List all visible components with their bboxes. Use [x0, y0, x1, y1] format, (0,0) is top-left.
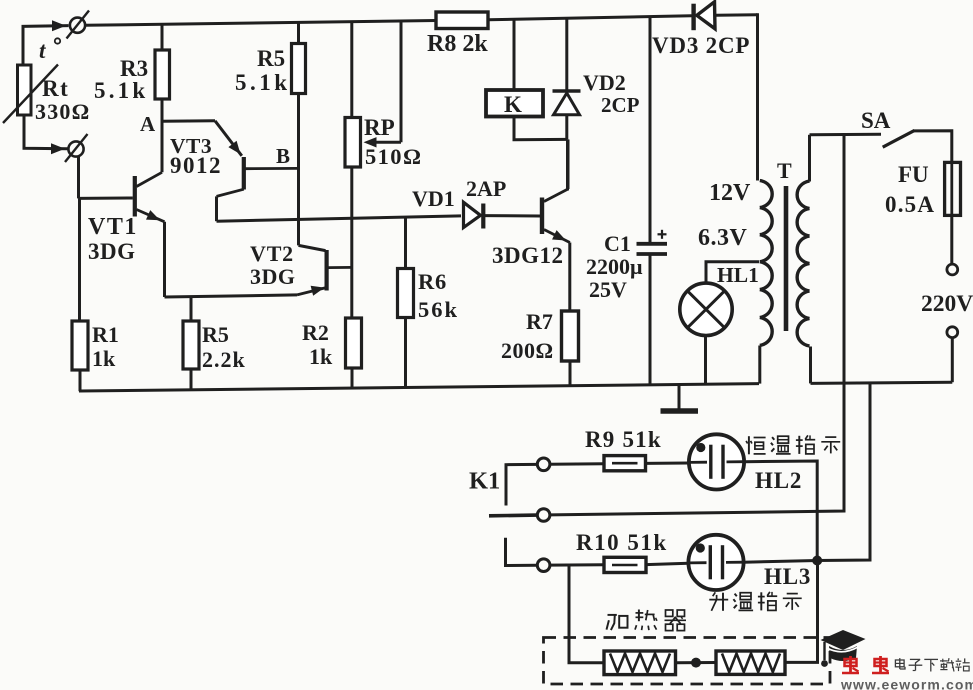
potentiometer RP 510ohm — [345, 118, 361, 168]
wire VD1 line to R6 — [404, 217, 407, 268]
contact K1 upper — [537, 458, 550, 471]
wire ground rail — [79, 384, 759, 391]
capacitor C1 2200u 25V — [637, 242, 668, 246]
svg-text:3DG12: 3DG12 — [492, 243, 564, 268]
wire primary bottom lead — [809, 347, 812, 384]
heater dashed enclosure — [544, 638, 831, 685]
node A wire to VT3 emitter — [162, 119, 215, 122]
watermark site name — [895, 660, 904, 667]
wire VD2 to collector node — [565, 115, 568, 140]
svg-text:330Ω: 330Ω — [35, 99, 90, 124]
wire emitter line to R5b — [190, 296, 193, 321]
wire rail to relay K — [513, 19, 516, 90]
svg-text:K: K — [504, 92, 522, 117]
svg-text:0.5A: 0.5A — [885, 192, 935, 217]
resistor R3 5.1k — [155, 50, 170, 99]
relay coil K — [486, 90, 543, 117]
svg-text:12V: 12V — [709, 180, 751, 206]
svg-text:VT1: VT1 — [88, 214, 138, 240]
svg-text:R1: R1 — [92, 322, 119, 347]
transformer T core — [784, 186, 789, 331]
wire K1 upper stub — [506, 464, 537, 505]
wire relay K bottom — [514, 117, 567, 140]
wire top supply rail right section — [716, 13, 758, 17]
wire R6 to ground — [404, 318, 407, 388]
transistor VT3 9012 — [242, 157, 246, 190]
label hengwen zhishi (constant temp indicator) — [748, 436, 750, 454]
wire HL2 to right drop — [744, 461, 817, 561]
svg-text:2CP: 2CP — [601, 93, 640, 117]
wire base node down to R1 — [78, 198, 81, 321]
transistor VT2 3DG — [325, 250, 329, 291]
wire R9 to HL2 — [646, 462, 690, 465]
svg-text:R5: R5 — [202, 322, 229, 347]
svg-text:VD2: VD2 — [583, 70, 626, 95]
wire primary top lead — [808, 135, 811, 182]
wire R3 to node A and down to VT1 collector — [161, 99, 164, 172]
wire top supply rail middle section — [488, 16, 692, 20]
svg-text:5.1k: 5.1k — [94, 78, 148, 103]
wire top supply rail left section — [85, 21, 436, 26]
wire lower terminal to bottom rail — [951, 338, 954, 383]
svg-text:R8 2k: R8 2k — [427, 31, 488, 57]
svg-text:SA: SA — [861, 108, 891, 133]
wire K1 upper to R9 — [550, 462, 604, 465]
wire rail to VD2 — [565, 18, 568, 91]
wire K1 lower stub — [506, 538, 538, 566]
resistor R2 1k — [346, 318, 362, 368]
wire R5b to ground — [190, 369, 193, 390]
wire R1 to ground rail — [79, 370, 82, 391]
wire R10 to HL3 — [646, 563, 689, 564]
svg-text:2200μ: 2200μ — [586, 254, 643, 279]
transformer T primary winding — [797, 181, 809, 346]
arrow into lower sensor terminal — [51, 143, 65, 154]
wire right rail corner down to transformer secondary — [756, 13, 759, 180]
svg-text:HL1: HL1 — [717, 263, 759, 287]
svg-text:R5: R5 — [257, 46, 285, 71]
wire R7 to ground — [569, 361, 572, 386]
arrow into top sensor terminal — [52, 20, 66, 31]
wire RP wiper from rail — [400, 21, 403, 143]
label shengwen zhishi (heating indicator) — [713, 592, 716, 596]
svg-text:510Ω: 510Ω — [365, 144, 422, 169]
wire 220V bottom rail — [811, 382, 953, 383]
wire HL3 to junction — [744, 561, 818, 563]
svg-text:B: B — [276, 144, 290, 168]
svg-text:3DG: 3DG — [88, 239, 136, 264]
svg-text:R9 51k: R9 51k — [585, 427, 662, 452]
watermark chongchong red characters — [845, 659, 857, 666]
svg-text:5.1k: 5.1k — [235, 70, 291, 95]
wire 3DG12 emitter down to R7 — [568, 243, 571, 312]
svg-text:www.eeworm.com: www.eeworm.com — [840, 677, 973, 690]
svg-text:VD1: VD1 — [412, 186, 455, 211]
diode VD1 2AP — [464, 202, 481, 227]
lamp HL1 — [680, 283, 732, 335]
contact K1 lower — [537, 559, 550, 572]
svg-text:6.3V: 6.3V — [698, 225, 748, 251]
resistor R6 56k — [398, 269, 414, 318]
terminal 220V lower — [947, 327, 958, 338]
switch SA blade — [883, 130, 915, 147]
resistor R8 2k — [436, 12, 488, 29]
ground — [678, 385, 681, 409]
wire VT2 collector diagonal — [299, 245, 326, 250]
node heater middle junction — [691, 658, 701, 668]
resistor R5 5.1k (upper) — [292, 44, 306, 94]
svg-text:1k: 1k — [92, 346, 116, 371]
wire RP bottom to R2 via VT2 base node — [350, 167, 353, 318]
svg-text:VT2: VT2 — [250, 241, 294, 266]
arrow 3DG12 emitter — [552, 230, 566, 240]
fuse FU 0.5A — [950, 162, 953, 215]
wire heater element 2 to riser — [785, 561, 818, 663]
wire junction to bottom rail riser — [817, 382, 870, 561]
neon lamp HL2 — [689, 434, 744, 489]
wire SA to FU corner — [914, 131, 952, 163]
svg-text:RP: RP — [364, 115, 395, 140]
svg-text:9012: 9012 — [170, 153, 222, 178]
resistor R10 51k — [604, 557, 646, 572]
wire 3DG12 collector up to relay node — [567, 140, 570, 190]
wire C1 to ground rail — [649, 254, 652, 385]
svg-text:R6: R6 — [418, 269, 447, 294]
svg-text:R7: R7 — [526, 309, 553, 334]
thermistor Rt 330ohm — [18, 65, 32, 115]
wire rail to R5a — [297, 22, 300, 43]
wire VD1 to 3DG12 base — [485, 214, 540, 217]
transistor VT1 3DG — [133, 176, 137, 217]
wire primary top to SA — [810, 133, 882, 137]
svg-text:2AP: 2AP — [466, 176, 506, 201]
wire K1 lower branch to heater — [569, 565, 604, 663]
svg-text:R10 51k: R10 51k — [576, 530, 668, 555]
resistor R9 51k — [604, 456, 646, 471]
wire common emitter line — [165, 295, 298, 297]
heater element 2 — [716, 651, 785, 674]
wire between heater elements — [676, 661, 717, 664]
node HL2-HL3 junction — [812, 556, 822, 566]
transformer T secondary winding lower section — [760, 262, 772, 346]
svg-text:3DG: 3DG — [250, 264, 296, 289]
resistor R5 2.2k — [183, 321, 199, 369]
wire HL1 bottom to ground rail — [704, 336, 707, 385]
wire VT3 collector down — [215, 196, 218, 221]
svg-text:A: A — [140, 112, 156, 136]
wire lower terminal down to VT1 base node — [77, 157, 80, 199]
wire FU to upper 220V terminal — [950, 215, 953, 264]
wire rail to C1 — [649, 17, 652, 243]
resistor R1 1k — [72, 321, 88, 370]
svg-text:T: T — [777, 158, 792, 183]
svg-text:HL3: HL3 — [764, 564, 811, 589]
terminal lower sensor — [68, 141, 83, 156]
arrow VT2 emitter — [311, 286, 325, 296]
svg-text:HL2: HL2 — [755, 468, 802, 493]
wire VT1 emitter down — [163, 222, 166, 297]
resistor R7 200ohm — [562, 311, 579, 361]
svg-text:25V: 25V — [589, 277, 627, 302]
wire rail to R3 — [161, 24, 164, 50]
arrow RP wiper — [364, 137, 377, 147]
diode VD2 2CP — [553, 89, 581, 93]
svg-text:t: t — [39, 38, 46, 63]
wire K1 pole stub — [489, 513, 537, 517]
svg-text:VD3 2CP: VD3 2CP — [652, 33, 750, 58]
arrow VT3 emitter — [228, 141, 240, 154]
neon lamp HL3 — [688, 535, 743, 590]
wire K1 lower to R10 — [550, 563, 604, 566]
wire node A diagonal to VT3 emitter — [215, 121, 242, 156]
svg-text:FU: FU — [898, 162, 929, 187]
svg-text:C1: C1 — [604, 231, 631, 256]
terminal top sensor — [70, 18, 85, 33]
wire R5a to node B and VT2 collector — [297, 94, 300, 246]
svg-text:Rt: Rt — [42, 76, 69, 101]
wire R2 to ground — [351, 368, 354, 388]
transistor VT4 3DG12 — [540, 198, 544, 235]
wire from Rt top to sensor terminal — [23, 26, 69, 65]
wire collector node down — [566, 139, 569, 190]
wire RP wiper horizontal — [375, 141, 401, 144]
terminal 220V upper — [947, 264, 958, 275]
wire VT3 collector to VD1 — [217, 216, 462, 221]
transformer T secondary winding upper 12V section — [760, 181, 772, 262]
contact K1 pole — [537, 509, 550, 522]
heater element 1 — [604, 651, 676, 675]
svg-text:1k: 1k — [309, 344, 333, 369]
svg-text:200Ω: 200Ω — [501, 338, 554, 363]
svg-text:R2: R2 — [302, 320, 329, 345]
svg-text:56k: 56k — [418, 297, 459, 322]
watermark graduation cap — [821, 630, 866, 650]
wire HL1 top to 6.3V tap — [706, 262, 759, 283]
svg-text:K1: K1 — [469, 468, 500, 495]
svg-text:220V: 220V — [921, 291, 973, 317]
arrow VT1 emitter — [146, 210, 160, 220]
wire rail to RP — [350, 21, 353, 117]
wire Rt bottom to lower sensor terminal — [24, 115, 68, 149]
wire SA node down to K1 pole — [550, 135, 844, 515]
wire secondary bottom to ground rail — [758, 346, 761, 384]
diode VD3 2CP — [691, 4, 695, 31]
wire VT1 base — [79, 197, 133, 200]
label jiareqi (heater) — [608, 614, 617, 616]
svg-text:2.2k: 2.2k — [202, 347, 246, 372]
